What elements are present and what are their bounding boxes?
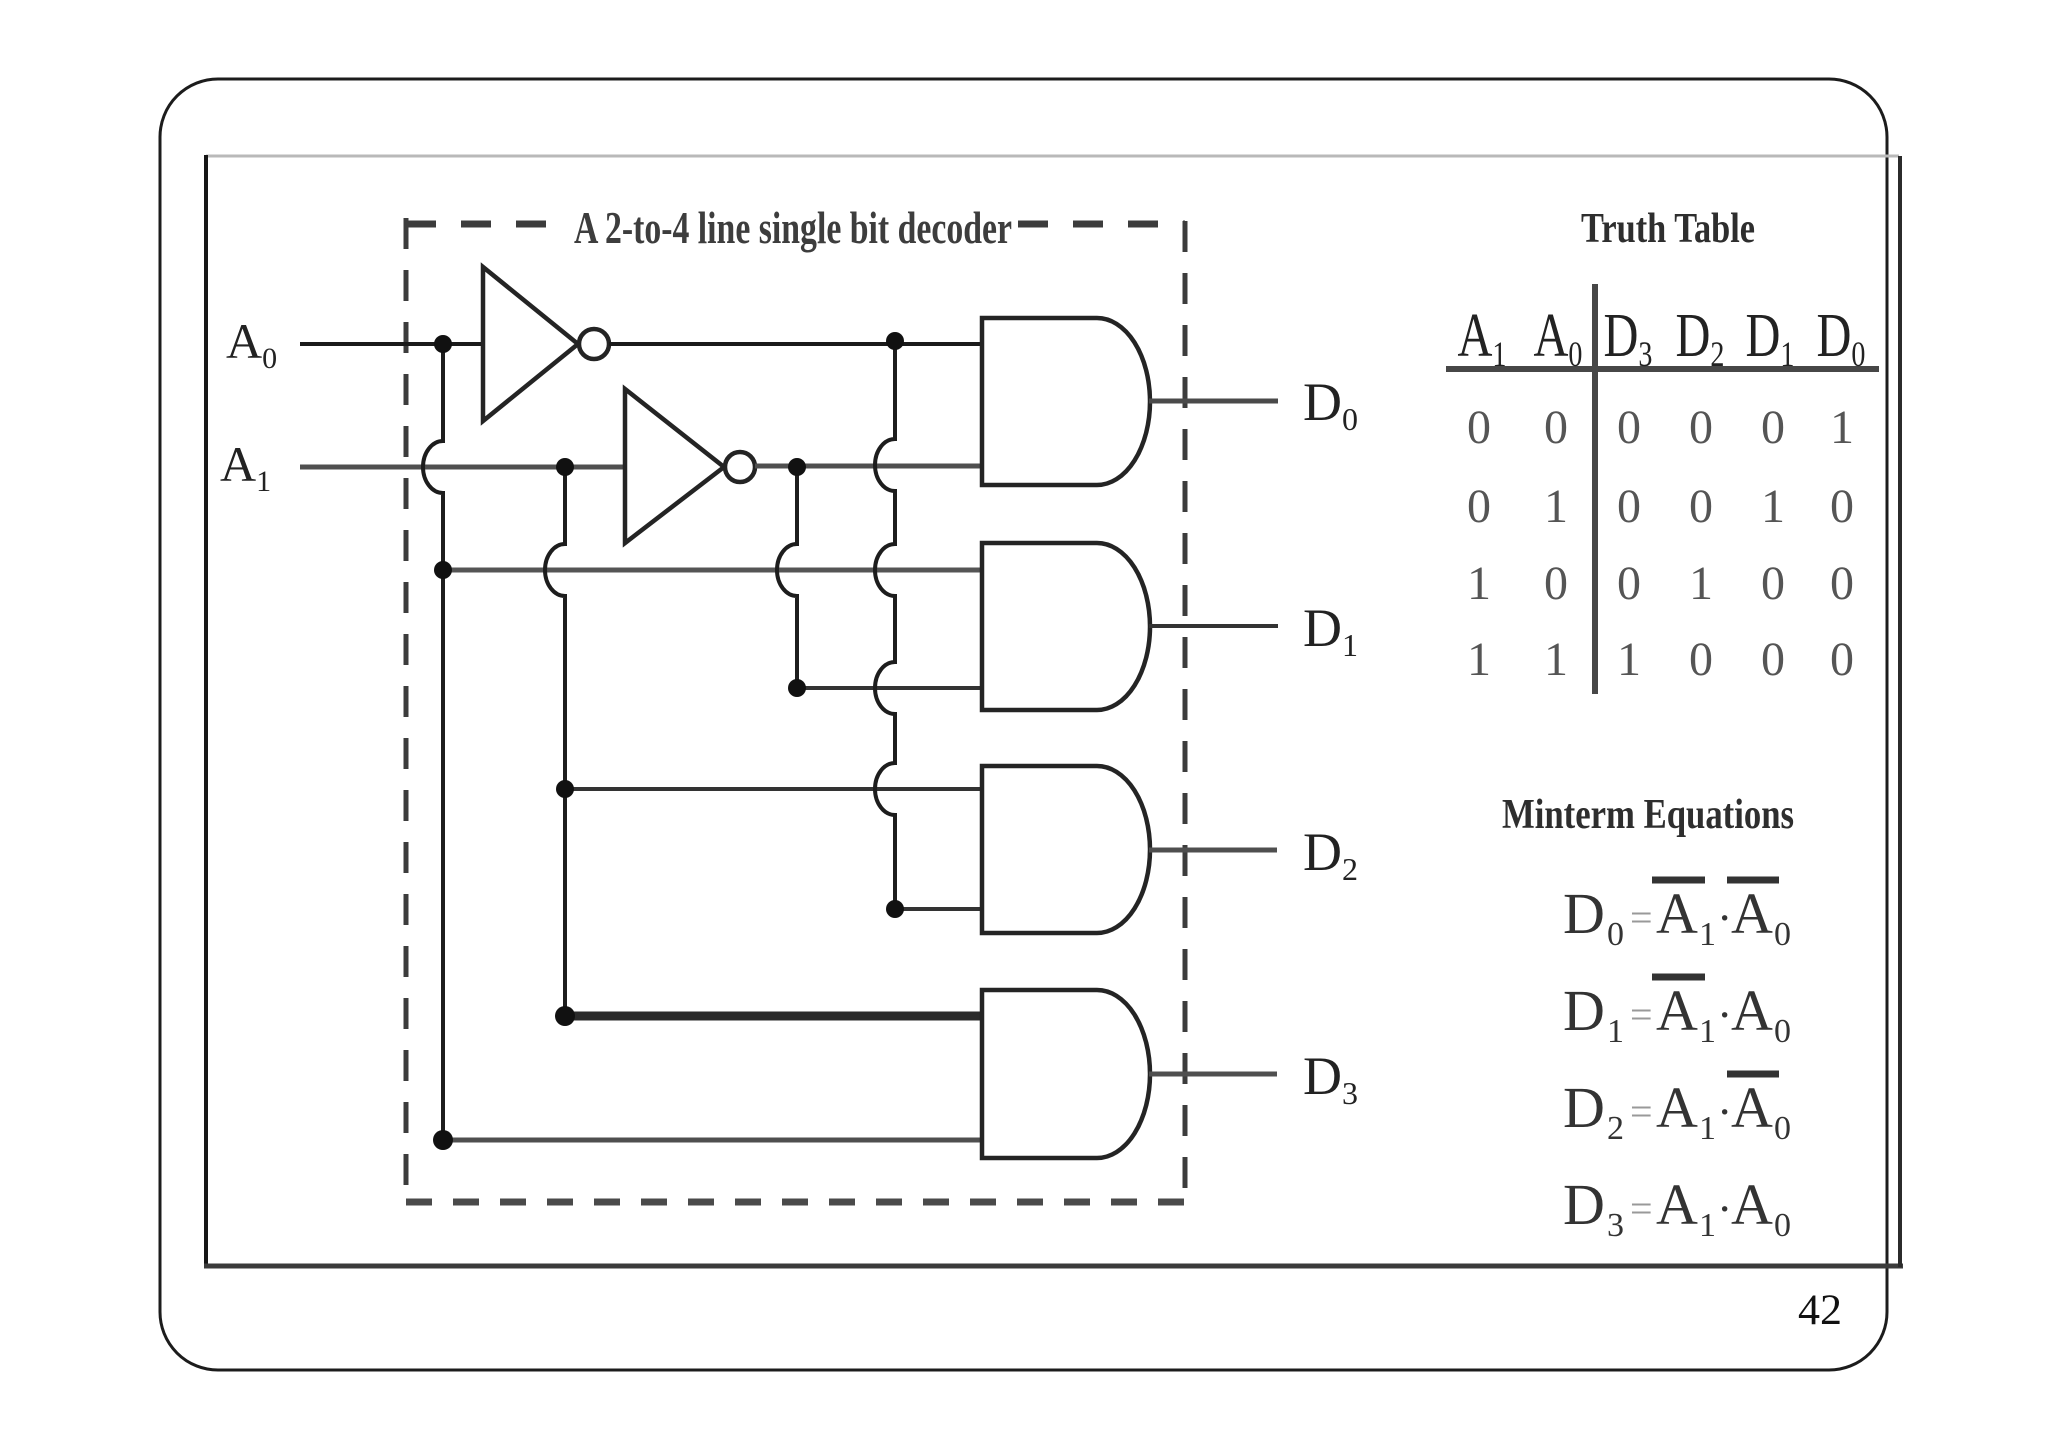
svg-text:0: 0 — [1467, 401, 1491, 454]
svg-text:D1: D1 — [1746, 301, 1795, 373]
AND gate D3 — [982, 990, 1150, 1158]
junction node y570 — [434, 561, 452, 579]
wire A0 distribution line y570 — [443, 568, 982, 573]
junction node on A1' line — [788, 458, 806, 476]
junction node D2 bottom corner — [886, 900, 904, 918]
svg-text:A1: A1 — [1458, 301, 1507, 373]
svg-text:D2: D2 — [1303, 822, 1358, 887]
svg-text:A0: A0 — [1534, 301, 1583, 373]
svg-text:D2=A1·A0: D2=A1·A0 — [1563, 1075, 1791, 1147]
wire D2 bottom input — [895, 907, 982, 911]
junction node D1 bottom corner — [788, 679, 806, 697]
equation D3 — [1563, 1172, 1791, 1244]
junction node on A1 line — [556, 458, 574, 476]
svg-text:1: 1 — [1617, 633, 1641, 686]
inner frame right edge — [1898, 156, 1902, 1267]
svg-text:D3=A1·A0: D3=A1·A0 — [1563, 1172, 1791, 1244]
AND gate D1 — [982, 543, 1150, 710]
svg-text:A0: A0 — [226, 313, 277, 375]
inverter U1 (A0) — [483, 267, 609, 421]
inner frame bottom edge — [204, 1264, 1903, 1269]
truth table row 2 — [1467, 480, 1854, 533]
svg-text:D1=A1·A0: D1=A1·A0 — [1563, 978, 1791, 1050]
svg-text:D3: D3 — [1303, 1046, 1358, 1111]
wire D0 output — [1149, 399, 1278, 404]
svg-text:A1: A1 — [220, 436, 271, 498]
svg-text:A 2-to-4 line single bit decod: A 2-to-4 line single bit decoder — [574, 202, 1012, 253]
wire A0' inverter1 output — [609, 342, 982, 346]
equation D0 — [1563, 880, 1791, 953]
svg-text:D1: D1 — [1303, 598, 1358, 663]
dashed decoder box right edge — [1183, 221, 1188, 1200]
svg-text:0: 0 — [1467, 480, 1491, 533]
slide outer rounded border — [160, 79, 1887, 1370]
dashed decoder box bottom edge — [406, 1199, 1185, 1206]
junction node y787 — [556, 780, 574, 798]
svg-text:D3: D3 — [1604, 301, 1653, 373]
junction node D3 bottom corner — [433, 1130, 453, 1150]
wire D1 output — [1149, 624, 1278, 628]
dashed decoder box left edge — [404, 218, 409, 1200]
truth table header underline — [1446, 366, 1879, 372]
junction node on A0' line — [886, 332, 904, 350]
svg-text:D0: D0 — [1303, 372, 1358, 437]
svg-text:1: 1 — [1544, 480, 1568, 533]
dashed decoder box top edge (left of title) — [406, 221, 566, 228]
svg-text:0: 0 — [1689, 633, 1713, 686]
wire A1 to D3 top input (thick) — [565, 1012, 982, 1021]
wire D3 output — [1149, 1072, 1277, 1077]
AND gate D0 — [982, 318, 1150, 485]
svg-text:D0: D0 — [1817, 301, 1866, 373]
svg-text:0: 0 — [1689, 401, 1713, 454]
svg-text:0: 0 — [1830, 480, 1854, 533]
svg-text:0: 0 — [1544, 401, 1568, 454]
svg-text:0: 0 — [1617, 557, 1641, 610]
svg-text:1: 1 — [1467, 557, 1491, 610]
svg-text:0: 0 — [1761, 557, 1785, 610]
truth table row 4 — [1467, 633, 1854, 686]
junction node on A0 line — [434, 335, 452, 353]
junction node D3 top corner — [555, 1006, 575, 1026]
dashed decoder box top edge (right of title) — [1018, 221, 1185, 228]
svg-text:1: 1 — [1544, 633, 1568, 686]
wire D2 output — [1149, 848, 1277, 853]
svg-text:1: 1 — [1689, 557, 1713, 610]
wire A1 input — [300, 465, 625, 470]
truth table row 1 — [1467, 401, 1854, 454]
svg-text:1: 1 — [1761, 480, 1785, 533]
svg-text:0: 0 — [1830, 633, 1854, 686]
svg-text:1: 1 — [1830, 401, 1854, 454]
wire vertical A1 branch with hop over y570 — [545, 467, 565, 1016]
inner frame top edge — [206, 155, 1899, 158]
equation D2 — [1563, 1074, 1791, 1147]
svg-text:1: 1 — [1467, 633, 1491, 686]
svg-text:D0=A1·A0: D0=A1·A0 — [1563, 881, 1791, 953]
svg-text:0: 0 — [1617, 480, 1641, 533]
svg-text:Minterm Equations: Minterm Equations — [1502, 792, 1794, 838]
inverter U2 (A1) — [625, 389, 755, 543]
wire vertical A0' branch with hops — [875, 341, 895, 909]
inner frame left edge — [204, 155, 208, 1268]
svg-text:0: 0 — [1761, 401, 1785, 454]
AND gate D2 — [982, 766, 1150, 933]
truth table vertical rule — [1592, 284, 1598, 694]
svg-text:42: 42 — [1798, 1287, 1842, 1334]
svg-text:0: 0 — [1830, 557, 1854, 610]
svg-text:D2: D2 — [1676, 301, 1725, 373]
svg-text:0: 0 — [1761, 633, 1785, 686]
wire A1 distribution line y787 — [565, 787, 982, 791]
equation D1 — [1563, 977, 1791, 1050]
truth table row 3 — [1467, 557, 1854, 610]
svg-text:0: 0 — [1689, 480, 1713, 533]
svg-text:Truth Table: Truth Table — [1581, 206, 1755, 252]
wire vertical A1' branch with hop over y570 — [777, 467, 797, 688]
wire vertical A0 branch with hop over A1 — [423, 344, 443, 1140]
wire A0 input — [300, 342, 483, 346]
svg-text:0: 0 — [1617, 401, 1641, 454]
svg-text:0: 0 — [1544, 557, 1568, 610]
wire A0 to D3 bottom input — [443, 1138, 982, 1143]
wire D1 bottom input — [797, 686, 982, 690]
wire A1' inverter2 output — [755, 464, 982, 469]
